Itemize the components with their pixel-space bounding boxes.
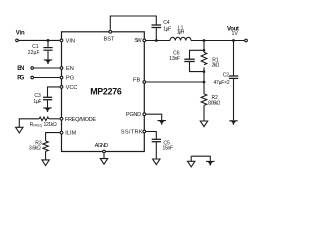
capacitor C5 xyxy=(152,139,161,159)
svg-text:VCC: VCC xyxy=(66,85,78,91)
ground : C3 filled arrow xyxy=(43,107,51,112)
wire : R3 to ground xyxy=(45,151,47,160)
capacitor C1 xyxy=(43,40,52,59)
wire : C6 loop bottom xyxy=(190,62,205,72)
wire : R1 bottom to FB node xyxy=(203,67,205,82)
inductor L1 xyxy=(170,37,191,40)
svg-text:AGND: AGND xyxy=(95,143,109,149)
ground : RFREQ open triangle xyxy=(16,127,23,133)
svg-text:FREQ/MODE: FREQ/MODE xyxy=(65,117,96,123)
ground : C5 open triangle xyxy=(153,159,160,165)
svg-text:ILIM: ILIM xyxy=(65,131,76,137)
svg-text:47µF×2: 47µF×2 xyxy=(214,80,230,86)
wire : ILIM pin to R3 xyxy=(46,133,60,141)
wire : BST riser to C4 xyxy=(110,16,156,30)
node : R1 branch junction xyxy=(203,39,206,42)
wire : PG to PG pin xyxy=(34,77,60,79)
wire : C6 loop top xyxy=(190,50,205,59)
svg-text:3.6kΩ: 3.6kΩ xyxy=(29,146,41,152)
svg-text:1.5nF: 1.5nF xyxy=(169,56,180,62)
ground : PGND filled arrow xyxy=(158,120,166,125)
svg-text:VIN: VIN xyxy=(66,39,75,45)
pin AGND xyxy=(103,150,106,153)
svg-text:8.06kΩ: 8.06kΩ xyxy=(208,100,220,106)
node : SW/C4 junction xyxy=(155,39,158,42)
svg-text:RFREQ: RFREQ xyxy=(30,122,43,128)
wire : VCC to C3 xyxy=(48,87,60,97)
capacitor C3 xyxy=(43,97,52,107)
pin VCC xyxy=(60,86,63,89)
svg-text:PG: PG xyxy=(66,76,74,82)
wire : PGND pin to ground xyxy=(146,114,162,120)
svg-text:121kΩ: 121kΩ xyxy=(44,122,58,128)
svg-text:1µH: 1µH xyxy=(177,29,185,35)
terminal EN xyxy=(31,67,34,70)
svg-text:C4: C4 xyxy=(163,20,170,26)
ground : R3 open triangle xyxy=(42,160,49,166)
resistor RFREQ 121k xyxy=(39,117,49,121)
resistor R3 xyxy=(43,141,48,152)
terminal Vin xyxy=(16,39,19,42)
svg-text:1µF: 1µF xyxy=(33,99,41,105)
wire : EN to EN pin xyxy=(34,67,60,69)
svg-text:FB: FB xyxy=(133,77,140,83)
svg-text:1µF: 1µF xyxy=(163,26,171,32)
op-amp U1 : MP2276 IC body xyxy=(62,32,145,152)
svg-text:1V: 1V xyxy=(232,31,239,37)
svg-text:2kΩ: 2kΩ xyxy=(212,63,220,69)
node : C2 branch junction xyxy=(232,39,235,42)
svg-text:C2: C2 xyxy=(223,73,230,79)
pin BST xyxy=(109,30,112,33)
svg-text:PG: PG xyxy=(17,76,24,82)
wire : SW pin to inductor xyxy=(146,40,170,42)
pin VIN xyxy=(60,39,63,42)
svg-text:22µF: 22µF xyxy=(28,50,40,56)
wire : AGND pin to ground xyxy=(103,154,105,159)
resistor R2 xyxy=(201,82,207,121)
svg-text:SW: SW xyxy=(134,38,142,44)
node : C6 top junction xyxy=(203,49,206,52)
wire : ground tie xyxy=(191,156,210,161)
ground : tie filled arrow xyxy=(206,161,214,166)
svg-text:EN: EN xyxy=(17,66,24,72)
svg-text:BST: BST xyxy=(104,36,115,42)
wire : FB pin to divider xyxy=(146,81,204,83)
svg-text:15nF: 15nF xyxy=(163,146,174,152)
ground : AGND open triangle xyxy=(100,159,107,165)
pin SW xyxy=(143,39,146,42)
wire : Vin to VIN pin xyxy=(18,39,59,41)
svg-text:SS/TRK: SS/TRK xyxy=(121,130,143,136)
terminal PG xyxy=(31,76,34,79)
wire : inductor to Vout terminal xyxy=(191,40,244,42)
node : C6 bottom junction xyxy=(203,70,206,73)
wire : R1 branch top xyxy=(203,41,205,53)
wire : FREQ/MODE pin to resistor xyxy=(49,118,60,120)
pin PGND xyxy=(143,113,146,116)
pin EN xyxy=(60,67,63,70)
svg-text:Vin: Vin xyxy=(16,31,25,37)
svg-text:MP2276: MP2276 xyxy=(90,87,122,97)
node : FB junction xyxy=(203,81,206,84)
ground : R2 open triangle xyxy=(200,121,207,127)
resistor R1 xyxy=(201,52,207,65)
capacitor C4 xyxy=(152,25,162,41)
wire : resistor to ground corner xyxy=(19,119,39,128)
node : Vin/C1 junction xyxy=(47,39,50,42)
capacitor C2 xyxy=(229,41,238,121)
ground : AGND-PGND tie open triangle xyxy=(188,156,195,167)
pin FREQ/MODE xyxy=(60,117,63,120)
ground : C1 filled arrow xyxy=(44,59,52,64)
svg-text:PGND: PGND xyxy=(126,112,141,118)
svg-text:C3: C3 xyxy=(34,93,41,99)
capacitor C6 xyxy=(184,59,194,61)
svg-text:EN: EN xyxy=(66,66,74,72)
pin PG xyxy=(60,76,63,79)
wire : SS/TRK pin to C5 xyxy=(146,132,157,139)
terminal Vout xyxy=(245,39,248,42)
ground : C2 filled arrow xyxy=(229,120,237,125)
pin FB xyxy=(143,81,146,84)
pin SS/TRK xyxy=(143,130,146,133)
pin ILIM xyxy=(60,131,63,134)
